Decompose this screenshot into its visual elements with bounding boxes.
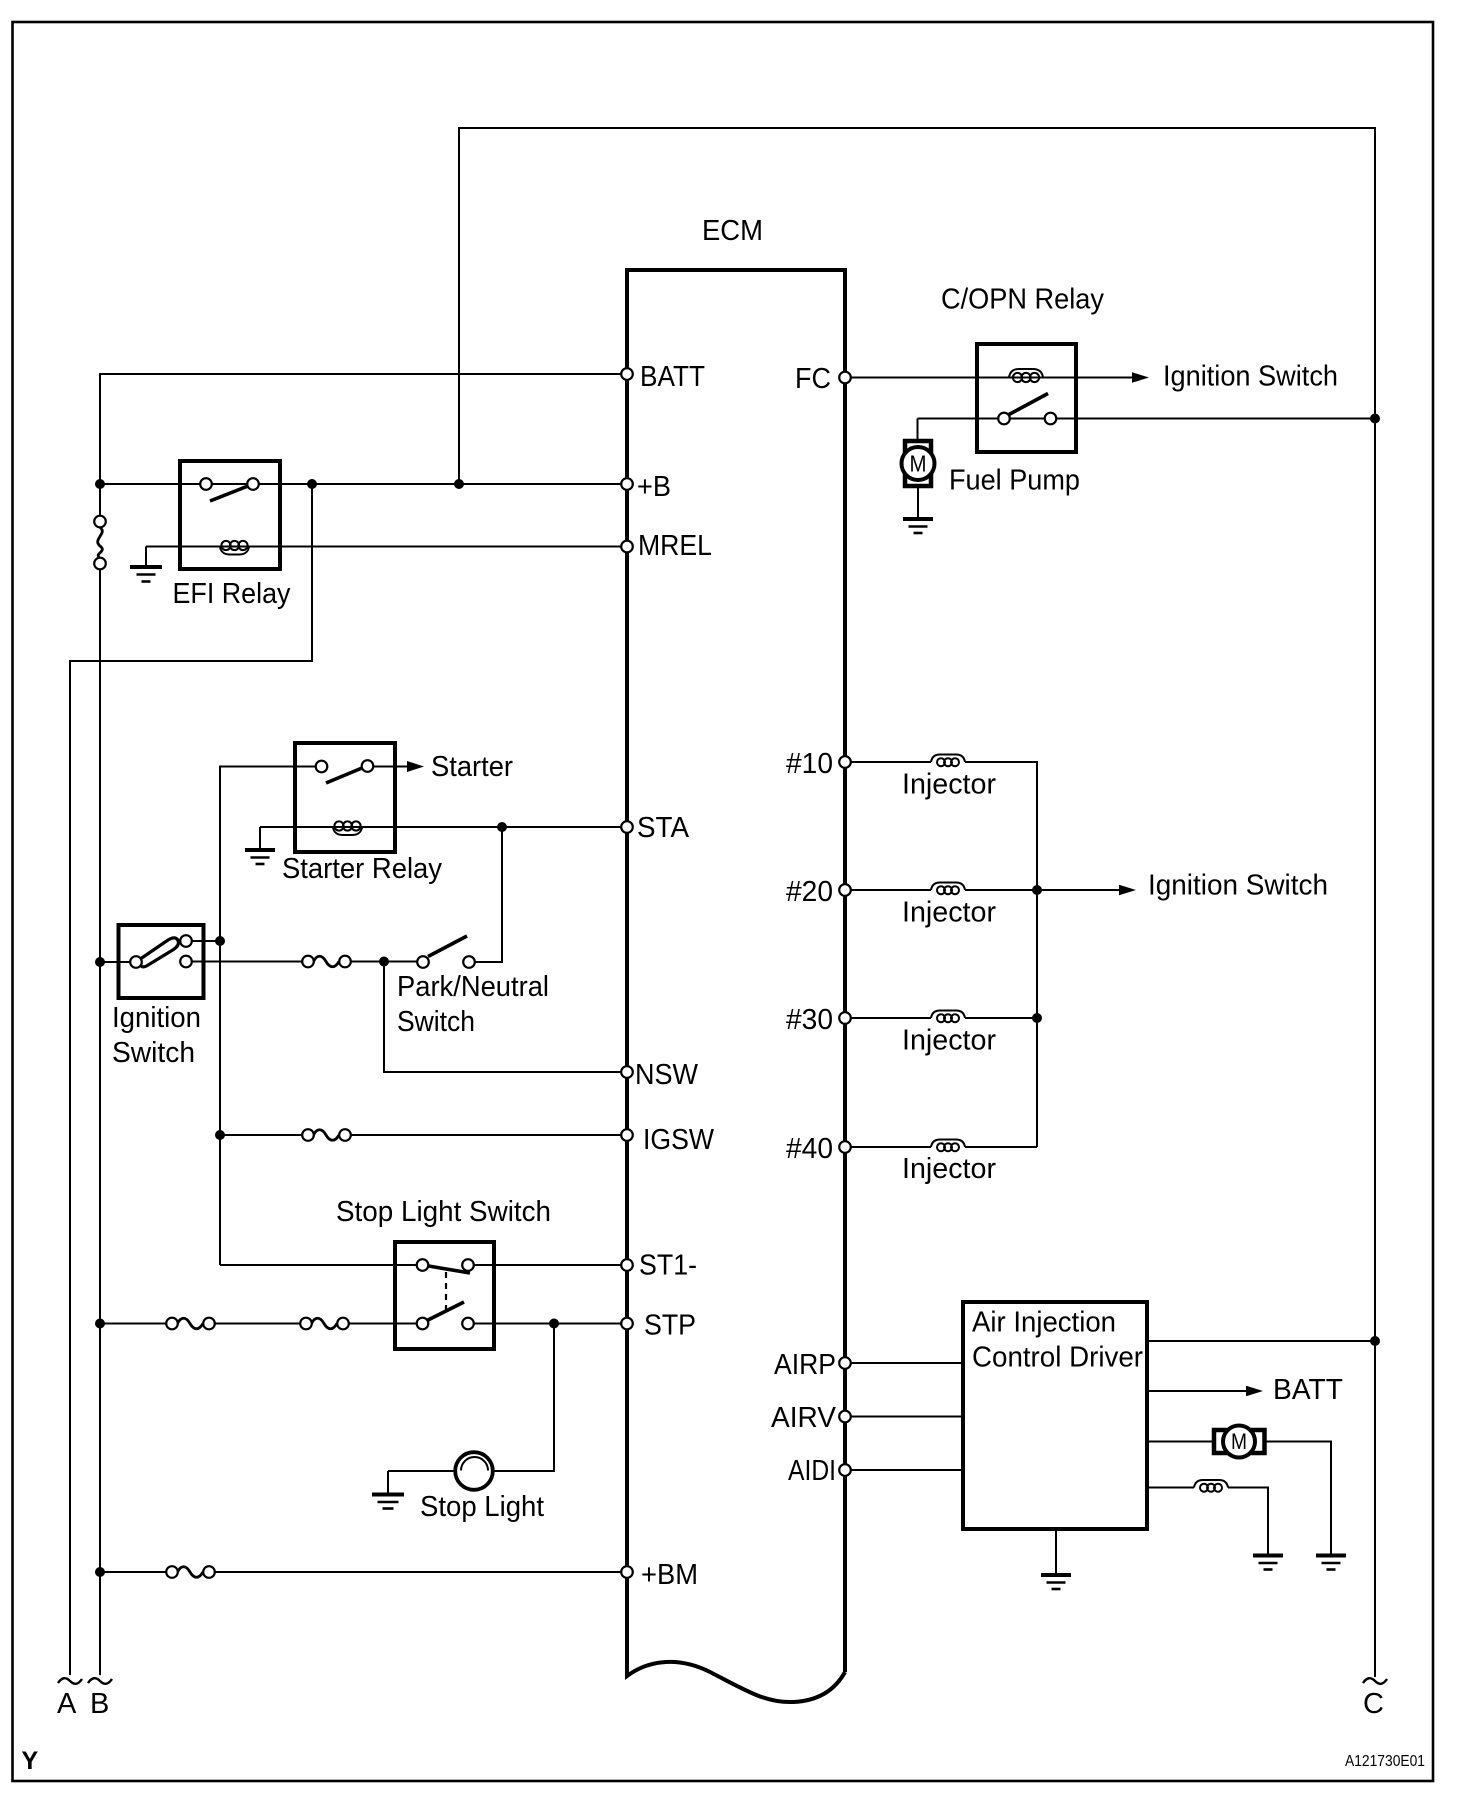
EFI relay switch contacts (200, 478, 259, 490)
svg-text:Air Injection: Air Injection (972, 1307, 1116, 1339)
pin FC (839, 372, 851, 384)
junction right bus / AICD (1370, 1336, 1380, 1346)
pin BATT (621, 368, 633, 380)
label #30 (786, 1004, 833, 1036)
pin STP (621, 1318, 633, 1330)
wire AICD to air pump motor (1147, 1441, 1214, 1443)
injector coil #40 (931, 1140, 965, 1152)
fuse STP second (300, 1318, 349, 1330)
wire ST1- left (220, 1264, 418, 1266)
arrow to BATT (1246, 1386, 1263, 1397)
relay C/OPN box (977, 344, 1076, 452)
svg-text:#30: #30 (786, 1004, 833, 1036)
fuse STP first (166, 1318, 215, 1330)
svg-text:ST1-: ST1- (639, 1250, 697, 1282)
pin NSW (621, 1066, 633, 1078)
label B (90, 1688, 109, 1720)
fusible link FL (vertical) (94, 516, 106, 570)
wire STA run (260, 826, 627, 828)
svg-text:Ignition: Ignition (112, 1002, 201, 1034)
label drawing number A121730E01 (1345, 1753, 1425, 1770)
svg-text:Control Driver: Control Driver (972, 1342, 1143, 1374)
wire +B run (100, 483, 627, 485)
wire injector bus (965, 762, 1037, 1147)
wire IGSW run left (220, 1134, 303, 1136)
svg-text:MREL: MREL (638, 530, 712, 562)
C/OPN relay coil (1009, 369, 1043, 382)
svg-text:C/OPN Relay: C/OPN Relay (941, 284, 1104, 316)
label STA (637, 812, 690, 844)
svg-text:M: M (910, 451, 927, 477)
label NSW (635, 1059, 699, 1091)
switch Stop Light box (395, 1242, 494, 1349)
wire AICD BATT arrow (1147, 1390, 1246, 1392)
svg-text:#10: #10 (786, 748, 833, 780)
wire bus to arrow (1037, 889, 1119, 891)
wire solenoid to ground (1228, 1488, 1268, 1555)
ground EFI relay coil (130, 547, 162, 582)
svg-text:ECM: ECM (702, 215, 763, 247)
motor Fuel Pump (902, 441, 935, 486)
wire AIRV (845, 1416, 963, 1418)
svg-text:STP: STP (644, 1310, 696, 1342)
wire B-line main vertical (99, 569, 101, 1675)
wire fuse to park-neutral switch (351, 961, 418, 963)
svg-text:Fuel Pump: Fuel Pump (949, 465, 1080, 497)
label #40 (786, 1133, 833, 1165)
pin #20 (839, 884, 851, 896)
wire +BM to pin (215, 1571, 627, 1573)
pin IGSW (621, 1129, 633, 1141)
svg-text:Injector: Injector (902, 1153, 996, 1185)
svg-text:A: A (57, 1688, 77, 1720)
label Fuel Pump (949, 465, 1080, 497)
wire stop light branch (493, 1324, 554, 1472)
label +BM (641, 1559, 698, 1591)
pin +B (621, 478, 633, 490)
wire ignition switch top pole to x220 riser (190, 940, 220, 942)
svg-text:C: C (1363, 1688, 1384, 1720)
label #20 (786, 876, 833, 908)
svg-text:AIDI: AIDI (788, 1455, 836, 1487)
wire AICD to right bus (1147, 1340, 1375, 1342)
wire AICD bottom to ground (1055, 1529, 1057, 1574)
label AIRP (774, 1349, 836, 1381)
junction NSW branch (379, 957, 389, 967)
pin ST1- (621, 1259, 633, 1271)
module Air Injection Control Driver box (963, 1302, 1147, 1529)
injector coil #20 (931, 883, 965, 895)
wire stop light to ground (388, 1470, 456, 1472)
svg-text:Injector: Injector (902, 897, 996, 929)
wire AIRP (845, 1362, 963, 1364)
junction +B/top riser (454, 479, 464, 489)
svg-text:Starter: Starter (431, 751, 513, 783)
label Injector 2 (902, 897, 996, 929)
wire starter switch to arrow (367, 766, 407, 768)
label #10 (786, 748, 833, 780)
solenoid coil AICD (1194, 1480, 1228, 1492)
svg-text:Switch: Switch (112, 1037, 195, 1069)
arrow to Ignition Switch (injectors) (1119, 885, 1136, 896)
wire AIDI (845, 1469, 963, 1471)
label Ignition Switch (FC) (1163, 361, 1338, 393)
wire +B branch down to A-line (70, 484, 312, 1675)
ground AICD (1041, 1575, 1071, 1589)
ignition switch contacts (130, 935, 192, 968)
fuse +BM (166, 1566, 215, 1578)
park/neutral switch blade (428, 936, 467, 957)
injector coil #10 (931, 755, 965, 767)
pin #40 (839, 1141, 851, 1153)
label Ignition Switch (injectors) (1148, 870, 1328, 902)
junction bus / #30 (1032, 1013, 1042, 1023)
wire injector #30 to bus (965, 1017, 1037, 1019)
EFI relay switch blade (210, 486, 248, 501)
stop light switch lower contacts (417, 1318, 474, 1330)
starter relay switch blade (326, 768, 362, 783)
svg-text:A121730E01: A121730E01 (1345, 1753, 1425, 1770)
wire fuel pump drop (917, 419, 919, 442)
pin #10 (839, 756, 851, 768)
fuse AM2 (ignition ST line) (302, 956, 351, 968)
svg-text:Y: Y (22, 1747, 39, 1775)
svg-text:BATT: BATT (1273, 1374, 1343, 1406)
junction STP / stop light branch (549, 1319, 559, 1329)
EFI relay coil (220, 541, 249, 555)
pin STA (621, 821, 633, 833)
wire fuel pump switch run (918, 418, 1376, 420)
junction x220 riser / ignition top pole (215, 936, 225, 946)
stop light switch lower blade (428, 1302, 464, 1320)
label AIDI (788, 1455, 836, 1487)
label IGSW (643, 1124, 715, 1156)
svg-text:#40: #40 (786, 1133, 833, 1165)
label Starter Relay (282, 853, 442, 885)
svg-text:+B: +B (637, 471, 671, 503)
junction B-line / +BM (95, 1567, 105, 1577)
label FC (795, 363, 831, 395)
wire park/neutral to STA junction (475, 827, 503, 962)
lamp Stop Light (455, 1452, 493, 1490)
junction B-line / ignition switch (95, 957, 105, 967)
C/OPN relay switch contacts (998, 413, 1056, 425)
label Stop Light (420, 1491, 544, 1523)
label BATT (640, 361, 705, 393)
wire injector #40 to bus (965, 1146, 1037, 1148)
svg-text:EFI Relay: EFI Relay (173, 578, 291, 610)
label Y (page index) (22, 1747, 39, 1775)
arrow to Starter (407, 761, 424, 772)
svg-text:+BM: +BM (641, 1559, 698, 1591)
pin +BM (621, 1566, 633, 1578)
svg-text:BATT: BATT (640, 361, 705, 393)
wire MREL run (146, 546, 627, 548)
label Ignition Switch (key) (112, 1002, 201, 1069)
connector A tilde (58, 1678, 82, 1684)
wire injector #40 (845, 1146, 931, 1148)
pin AIRP (839, 1357, 851, 1369)
wire FC run (850, 377, 1132, 379)
wire ignition switch ST pole to fuse (190, 961, 303, 963)
label Injector 4 (902, 1153, 996, 1185)
fuse IGSW line (302, 1129, 351, 1141)
wire air pump motor to ground (1265, 1442, 1332, 1555)
label C/OPN Relay (941, 284, 1104, 316)
svg-text:IGSW: IGSW (643, 1124, 715, 1156)
C/OPN relay switch blade (1009, 394, 1048, 415)
wire STP to pin (474, 1323, 628, 1325)
label +B (637, 471, 671, 503)
switch Ignition box (119, 925, 204, 998)
wire B-line upper (junction to fusible link) (99, 484, 101, 516)
label EFI Relay (173, 578, 291, 610)
svg-text:#20: #20 (786, 876, 833, 908)
label A (57, 1688, 77, 1720)
switch Park/Neutral contacts (417, 956, 475, 968)
svg-text:B: B (90, 1688, 109, 1720)
stop light switch upper contacts (417, 1259, 474, 1271)
ground air pump motor (1316, 1556, 1346, 1570)
svg-text:Injector: Injector (902, 769, 996, 801)
svg-text:STA: STA (637, 812, 690, 844)
label Stop Light Switch (336, 1196, 551, 1228)
wire starter relay feed (x220 riser) (220, 767, 321, 1266)
wire NSW run (384, 962, 627, 1073)
label Starter (431, 751, 513, 783)
ground stop light (372, 1471, 404, 1509)
relay Starter box (295, 743, 395, 852)
label MREL (638, 530, 712, 562)
stop light switch upper blade (429, 1266, 471, 1273)
wire STP between fuses (215, 1323, 301, 1325)
label Injector 1 (902, 769, 996, 801)
wire STP into switch (349, 1323, 417, 1325)
wire BATT to B-line (100, 374, 627, 484)
wire AICD solenoid (1147, 1487, 1194, 1489)
wire injector #20 (845, 889, 931, 891)
label STP (644, 1310, 696, 1342)
wire top feed (+B riser to FC bus) (459, 128, 1375, 1677)
ground solenoid (1253, 1556, 1283, 1570)
junction x220 riser / IGSW (215, 1130, 225, 1140)
svg-text:Stop Light Switch: Stop Light Switch (336, 1196, 551, 1228)
junction B-line / STP (95, 1319, 105, 1329)
wire ST1- right (474, 1264, 628, 1266)
label AIRV (771, 1402, 837, 1434)
connector B tilde (88, 1678, 112, 1684)
ground fuel pump (903, 486, 933, 533)
wire injector #10 (845, 761, 931, 763)
ground starter relay coil (245, 827, 275, 864)
svg-text:Starter Relay: Starter Relay (282, 853, 442, 885)
junction +B/A-branch (307, 479, 317, 489)
svg-text:AIRV: AIRV (771, 1402, 837, 1434)
label C (1363, 1688, 1384, 1720)
starter relay switch contacts (316, 760, 374, 772)
arrow to Ignition Switch (FC) (1132, 372, 1149, 383)
svg-text:M: M (1231, 1429, 1247, 1454)
svg-text:Ignition Switch: Ignition Switch (1148, 870, 1328, 902)
label Park/Neutral Switch (397, 971, 549, 1038)
label Injector 3 (902, 1025, 996, 1057)
stop light switch link (dashed) (445, 1272, 447, 1311)
starter relay coil (333, 821, 362, 835)
label Air Injection Control Driver (972, 1307, 1143, 1374)
wire STP from B-line (100, 1323, 167, 1325)
svg-text:FC: FC (795, 363, 831, 395)
ignition switch lever (140, 938, 178, 967)
svg-text:Park/Neutral: Park/Neutral (397, 971, 549, 1003)
junction STA / park-neutral branch (497, 822, 507, 832)
junction right bus / fuel pump switch (1370, 414, 1380, 424)
wire +BM from B-line (100, 1571, 167, 1573)
junction bus / #20 arrow (1032, 885, 1042, 895)
svg-text:NSW: NSW (635, 1059, 699, 1091)
relay EFI box (180, 461, 280, 569)
svg-text:AIRP: AIRP (774, 1349, 836, 1381)
wire IGSW run right (351, 1134, 627, 1136)
svg-text:Injector: Injector (902, 1025, 996, 1057)
svg-text:Stop Light: Stop Light (420, 1491, 544, 1523)
svg-text:Ignition Switch: Ignition Switch (1163, 361, 1338, 393)
label ECM (702, 215, 763, 247)
svg-text:Switch: Switch (397, 1006, 475, 1038)
wire injector #20 to bus (965, 889, 1037, 891)
label ST1- (639, 1250, 697, 1282)
wire ignition switch to B-line (100, 961, 132, 963)
pin #30 (839, 1012, 851, 1024)
motor air pump (1214, 1426, 1265, 1458)
label BATT (AICD) (1273, 1374, 1343, 1406)
pin AIDI (839, 1464, 851, 1476)
pin AIRV (839, 1411, 851, 1423)
connector C tilde (1363, 1678, 1387, 1684)
injector coil #30 (931, 1011, 965, 1023)
junction +B/B-line (95, 479, 105, 489)
pin MREL (621, 541, 633, 553)
ECM box U1 (627, 270, 845, 1702)
wire injector #30 (845, 1017, 931, 1019)
